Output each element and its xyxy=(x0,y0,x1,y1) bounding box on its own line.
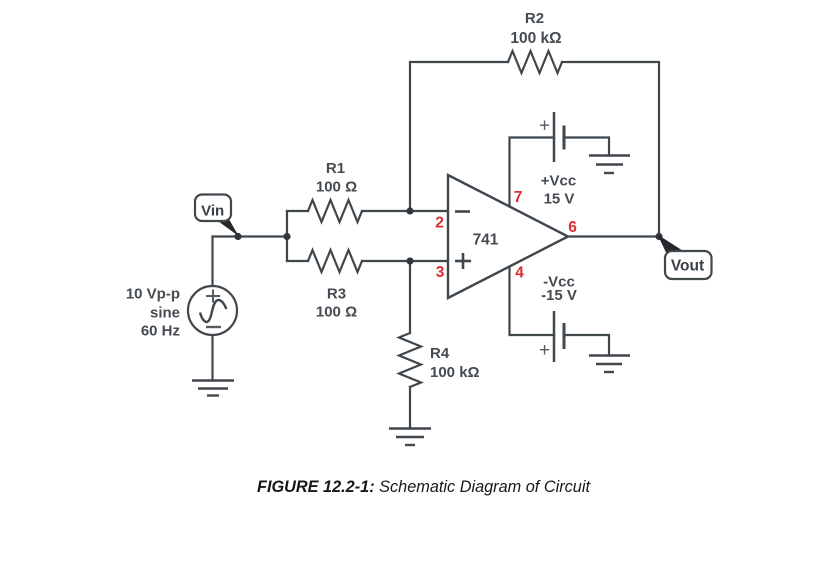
svg-text:FIGURE 12.2-1: Schematic Diagr: FIGURE 12.2-1: Schematic Diagram of Circ… xyxy=(257,478,591,496)
svg-text:-15 V: -15 V xyxy=(541,287,577,304)
svg-text:6: 6 xyxy=(568,219,577,236)
svg-text:R4: R4 xyxy=(430,345,450,362)
svg-text:R3: R3 xyxy=(327,286,346,303)
svg-text:100 Ω: 100 Ω xyxy=(316,179,357,196)
svg-text:3: 3 xyxy=(436,264,445,281)
svg-text:+Vcc: +Vcc xyxy=(541,173,576,190)
svg-text:7: 7 xyxy=(514,189,523,206)
svg-text:60 Hz: 60 Hz xyxy=(141,323,180,340)
svg-text:100 kΩ: 100 kΩ xyxy=(510,30,561,47)
svg-text:+: + xyxy=(539,340,550,361)
svg-text:R2: R2 xyxy=(525,10,544,27)
svg-text:2: 2 xyxy=(435,215,444,232)
svg-text:R1: R1 xyxy=(326,160,345,177)
svg-text:Vin: Vin xyxy=(201,203,224,220)
svg-text:Vout: Vout xyxy=(671,258,704,275)
svg-text:10 Vp-p: 10 Vp-p xyxy=(126,286,180,303)
svg-text:+: + xyxy=(539,116,550,137)
svg-text:4: 4 xyxy=(515,265,524,282)
svg-text:100 Ω: 100 Ω xyxy=(316,304,357,321)
svg-text:100 kΩ: 100 kΩ xyxy=(430,364,480,381)
svg-text:741: 741 xyxy=(473,232,499,249)
svg-text:15 V: 15 V xyxy=(544,191,575,208)
svg-text:sine: sine xyxy=(150,305,180,322)
